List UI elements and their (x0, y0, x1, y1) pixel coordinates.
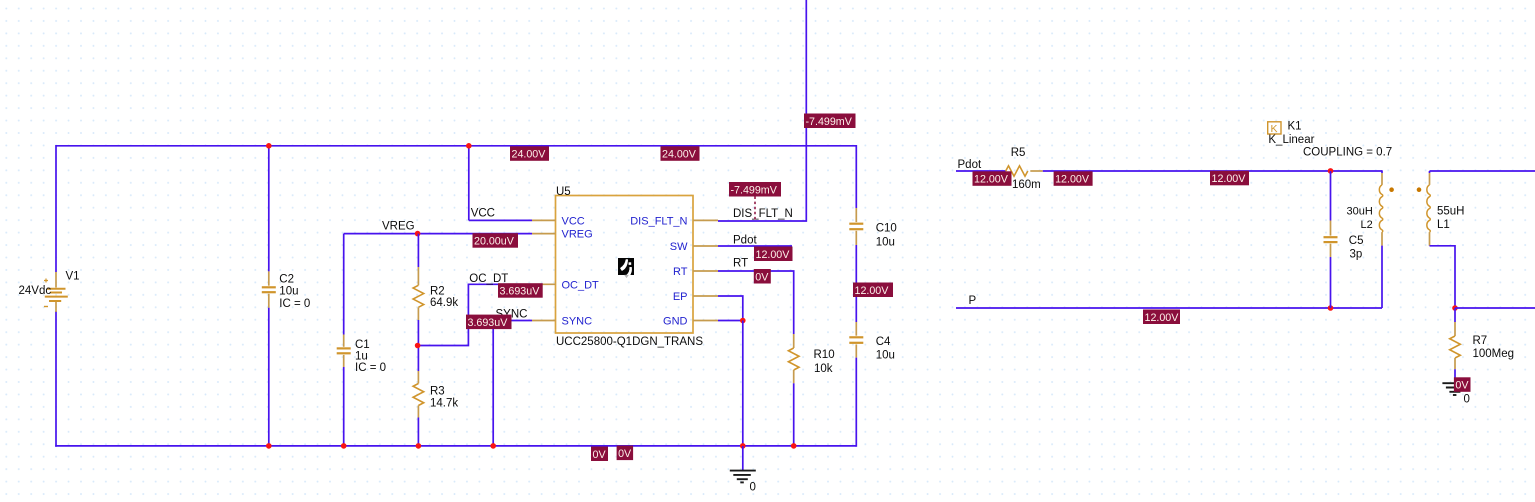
svg-text:12.00V: 12.00V (756, 249, 791, 261)
bias label 3.693uV SYNC (466, 315, 512, 330)
svg-text:C1: C1 (355, 339, 370, 351)
svg-text:R7: R7 (1473, 335, 1488, 347)
svg-text:RT: RT (673, 266, 688, 278)
wire Pdot SW net (718, 245, 792, 247)
svg-text:U5: U5 (556, 186, 571, 198)
bias label -7.499mV mid (729, 182, 781, 197)
svg-text:C4: C4 (876, 336, 891, 348)
svg-text:Pdot: Pdot (958, 159, 982, 171)
node junction SYNC bottom (490, 443, 496, 449)
svg-text:VREG: VREG (562, 229, 593, 241)
wire top rail 24V net (56, 145, 856, 147)
wire Pdot net right (956, 170, 1006, 172)
bias label 0V RT (754, 269, 771, 284)
svg-text:12.00V: 12.00V (855, 285, 890, 297)
pin RT stub (693, 270, 718, 272)
wire bottom right rail (1455, 307, 1535, 309)
ground 0 (742, 446, 744, 470)
wire (268, 271, 270, 285)
wire (1330, 221, 1332, 236)
wire P net (956, 307, 1382, 309)
wire (855, 208, 857, 222)
svg-text:OC_DT: OC_DT (562, 279, 600, 291)
bias label 12.00V Pdot 2 (1054, 171, 1093, 186)
svg-text:20.00uV: 20.00uV (474, 236, 515, 248)
svg-text:VREG: VREG (382, 221, 415, 233)
bias label 0V bottom 2 (617, 446, 634, 461)
svg-text:10u: 10u (876, 350, 895, 362)
svg-text:-7.499mV: -7.499mV (806, 116, 853, 128)
wire V1 top (55, 145, 57, 272)
svg-text:10u: 10u (279, 286, 298, 298)
pin VREG stub (532, 233, 556, 235)
svg-text:24.00V: 24.00V (662, 149, 697, 161)
svg-text:160m: 160m (1012, 179, 1041, 191)
svg-text:64.9k: 64.9k (430, 297, 458, 309)
svg-text:R3: R3 (430, 386, 445, 398)
bias label 24.00V right (661, 146, 700, 161)
resistor R7 100Meg (1454, 308, 1456, 322)
wire SYNC net (493, 321, 532, 447)
inductor L1 55uH (1430, 170, 1535, 172)
svg-text:K1: K1 (1288, 121, 1302, 133)
svg-text:L1: L1 (1437, 219, 1450, 231)
inductor L2 30uH (1381, 170, 1383, 173)
svg-text:30uH: 30uH (1347, 206, 1373, 218)
phase dot L1 (1417, 187, 1422, 192)
svg-text:SW: SW (670, 241, 688, 253)
svg-text:K: K (1271, 123, 1278, 135)
node junction R2 R3 OC_DT (415, 343, 421, 349)
svg-text:-7.499mV: -7.499mV (731, 184, 778, 196)
node junction R7 top (1452, 305, 1458, 311)
svg-text:0V: 0V (1455, 380, 1469, 392)
svg-text:COUPLING = 0.7: COUPLING = 0.7 (1303, 147, 1392, 159)
svg-text:GND: GND (663, 316, 688, 328)
svg-text:P: P (969, 295, 977, 307)
svg-text:R10: R10 (814, 349, 835, 361)
node junction VCC top rail (466, 143, 472, 149)
bias label 24.00V left (510, 146, 549, 161)
svg-text:0V: 0V (755, 271, 769, 283)
pin VCC stub (532, 219, 556, 221)
svg-text:12.00V: 12.00V (1212, 173, 1247, 185)
bias label 0V right ground (1454, 377, 1471, 392)
svg-text:24.00V: 24.00V (512, 149, 547, 161)
svg-text:12.00V: 12.00V (1145, 312, 1180, 324)
svg-text:3p: 3p (1350, 249, 1363, 261)
svg-text:VCC: VCC (562, 215, 585, 227)
bias label 12.00V Pdot 1 (973, 171, 1012, 186)
IC logo mark (618, 258, 634, 275)
resistor R10 10k (793, 334, 795, 348)
wire VREG net (344, 233, 532, 235)
op-amp U5 UCC25800-Q1DGN_TRANS IC box (556, 196, 694, 334)
wire right branch C10 C4 (855, 145, 857, 208)
pin OC_DT stub (532, 283, 556, 285)
svg-text:0: 0 (750, 482, 756, 494)
capacitor C5 3p (1330, 171, 1332, 221)
node junction C5 bottom (1328, 305, 1334, 311)
voltage source V1 24Vdc battery (55, 272, 57, 288)
svg-text:0V: 0V (593, 449, 607, 461)
node junction C5 top (1328, 168, 1334, 174)
bias label 20.00uV (473, 233, 519, 248)
svg-text:55uH: 55uH (1437, 206, 1465, 218)
svg-text:DIS_FLT_N: DIS_FLT_N (733, 208, 793, 220)
svg-text:Pdot: Pdot (733, 235, 757, 247)
resistor R5 160m (1006, 166, 1028, 176)
bias label 12.00V P net (1143, 310, 1180, 325)
bias label 3.693uV OC_DT (498, 283, 543, 298)
wire EP net (718, 296, 743, 321)
node junction R3 bottom (416, 443, 422, 449)
pin GND stub (693, 320, 718, 322)
svg-text:12.00V: 12.00V (974, 174, 1009, 186)
svg-text:3.693uV: 3.693uV (500, 286, 541, 298)
node junction GND bottom rail (740, 443, 746, 449)
svg-text:3.693uV: 3.693uV (468, 317, 509, 329)
transformer K1 symbol (1268, 122, 1281, 134)
node junction VREG R2 (415, 231, 421, 237)
pin SW stub (693, 245, 718, 247)
phase dot L2 (1389, 187, 1394, 192)
svg-text:0V: 0V (618, 448, 632, 460)
ground right 0 (1442, 382, 1468, 384)
wire (855, 322, 857, 336)
svg-text:EP: EP (673, 291, 688, 303)
svg-text:24Vdc: 24Vdc (19, 285, 52, 297)
svg-text:VCC: VCC (471, 208, 495, 220)
node junction C2 top (266, 143, 272, 149)
bias label 12.00V SW (754, 247, 793, 262)
svg-text:R5: R5 (1011, 147, 1026, 159)
svg-text:R2: R2 (430, 286, 445, 298)
wire bottom rail 0V net (55, 445, 856, 447)
pin SYNC stub (532, 320, 556, 322)
wire GND vertical (742, 321, 744, 447)
svg-text:L2: L2 (1361, 219, 1373, 231)
node junction R10 bottom (791, 443, 797, 449)
pin DIS_FLT_N stub (693, 219, 718, 221)
resistor R2 64.9k (417, 234, 419, 267)
wire OC_DT net (418, 284, 532, 345)
bias label 0V bottom 1 (591, 447, 608, 462)
svg-text:C10: C10 (876, 223, 897, 235)
node junction EP GND (740, 318, 746, 324)
svg-text:V1: V1 (66, 271, 80, 283)
svg-text:1u: 1u (355, 351, 368, 363)
svg-text:10u: 10u (876, 237, 895, 249)
svg-text:K_Linear: K_Linear (1268, 134, 1314, 146)
wire VCC net (468, 145, 470, 220)
svg-text:IC = 0: IC = 0 (279, 298, 310, 310)
node junction C2 bottom (266, 443, 272, 449)
svg-text:0: 0 (1464, 394, 1470, 406)
svg-text:RT: RT (733, 258, 748, 270)
bias label 12.00V right branch (853, 283, 893, 298)
node junction C1 bottom (341, 443, 347, 449)
bias pointer dashed (754, 197, 756, 220)
svg-text:C2: C2 (279, 274, 294, 286)
wire L1 bottom (1430, 246, 1456, 308)
svg-text:12.00V: 12.00V (1055, 174, 1090, 186)
wire (343, 335, 345, 347)
pin EP stub (693, 295, 718, 297)
bias label 12.00V Pdot 3 (1210, 171, 1249, 186)
wire V1 bottom (55, 311, 57, 447)
svg-text:DIS_FLT_N: DIS_FLT_N (630, 215, 687, 227)
wire Pdot to transformer (1043, 170, 1382, 172)
svg-text:14.7k: 14.7k (430, 398, 458, 410)
svg-text:C5: C5 (1349, 235, 1364, 247)
bias label -7.499mV top (804, 114, 856, 129)
wire DIS_FLT_N vertical from top (718, 0, 806, 221)
svg-text:100Meg: 100Meg (1473, 348, 1515, 360)
svg-text:UCC25800-Q1DGN_TRANS: UCC25800-Q1DGN_TRANS (556, 336, 703, 348)
wire GND net (718, 320, 743, 322)
capacitor C2 (268, 146, 270, 271)
svg-text:SYNC: SYNC (562, 316, 593, 328)
svg-text:10k: 10k (814, 363, 833, 375)
svg-text:IC = 0: IC = 0 (355, 362, 386, 374)
resistor R3 14.7k (417, 346, 419, 372)
wire RT net (718, 271, 794, 334)
